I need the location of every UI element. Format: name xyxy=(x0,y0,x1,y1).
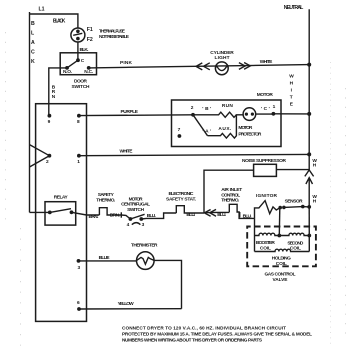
svg-text:MOTOR: MOTOR xyxy=(238,125,253,131)
relay terminal right xyxy=(70,210,74,214)
second coil xyxy=(279,233,309,235)
svg-text:C: C xyxy=(31,50,35,56)
svg-text:3: 3 xyxy=(78,265,81,271)
junction neutral-white xyxy=(307,152,311,156)
svg-text:PURPLE: PURPLE xyxy=(121,109,139,115)
svg-text:4: 4 xyxy=(127,222,130,228)
aux winding xyxy=(208,115,244,138)
air inlet control thermostat bump xyxy=(229,204,254,218)
svg-text:H: H xyxy=(313,199,317,205)
svg-text:BLU.: BLU. xyxy=(147,213,156,219)
door switch box xyxy=(60,53,96,75)
svg-text:PINK: PINK xyxy=(120,60,133,66)
svg-text:RUN: RUN xyxy=(222,103,234,109)
timer terminal 3 xyxy=(77,259,81,263)
svg-text:SENSOR: SENSOR xyxy=(285,199,304,205)
svg-text:7: 7 xyxy=(178,127,181,133)
door switch blade xyxy=(67,60,78,68)
relay terminal left xyxy=(48,211,52,215)
wire noise suppressor tap vertical xyxy=(204,170,254,213)
svg-text:W: W xyxy=(289,74,294,80)
wire YELLOW timer 6 to thermistor loop xyxy=(79,308,182,310)
cylinder light lamp xyxy=(215,62,228,75)
connector chevrons right of lamp xyxy=(239,63,250,70)
label AIR INLET CONTROL THERMO. xyxy=(221,187,242,203)
wire fuse to door switch, BLK. xyxy=(77,42,79,60)
holding coil bottom wire xyxy=(255,249,310,251)
motor box xyxy=(172,100,282,147)
wire neutral vertical line xyxy=(308,9,310,170)
door switch terminal N.C. xyxy=(87,66,91,70)
svg-text:CENTRIFUGAL: CENTRIFUGAL xyxy=(121,202,150,208)
wire L1 top horizontal to fuse xyxy=(30,14,78,28)
wire motor 1 to neutral xyxy=(273,113,309,115)
junction neutral-sensor xyxy=(307,205,311,209)
junction second coil right xyxy=(307,234,311,238)
svg-text:THERMISTER: THERMISTER xyxy=(131,242,158,248)
wire thermistor loop right xyxy=(154,260,181,308)
label ELECTRONIC SAFETY STAT. xyxy=(166,191,196,203)
connector tick xyxy=(120,212,122,217)
svg-text:DOOR: DOOR xyxy=(74,79,88,85)
svg-text:N.O.: N.O. xyxy=(63,69,72,75)
wire into centrifugal switch xyxy=(121,215,130,219)
svg-text:WHITE: WHITE xyxy=(120,149,134,155)
wire to air inlet thermo xyxy=(204,211,229,213)
svg-text:GAS CONTROL: GAS CONTROL xyxy=(265,271,296,277)
sensor xyxy=(278,205,309,210)
svg-text:BRN.: BRN. xyxy=(110,212,120,218)
motor terminal 1 xyxy=(272,112,276,116)
svg-text:F2: F2 xyxy=(87,37,93,43)
label BRN vertical xyxy=(52,84,56,100)
label W H pair lower xyxy=(312,194,317,205)
svg-text:PROTECTED BY MAXIMUM 15 A. TIM: PROTECTED BY MAXIMUM 15 A. TIME DELAY FU… xyxy=(122,332,312,337)
svg-text:PROTECTOR: PROTECTOR xyxy=(238,131,262,137)
label HOLDING COIL xyxy=(272,256,291,267)
svg-text:K: K xyxy=(31,59,35,65)
wire noise suppressor to neutral xyxy=(276,169,309,171)
svg-text:NOISE SUPPRESSOR: NOISE SUPPRESSOR xyxy=(242,158,287,164)
motor terminal 7 xyxy=(178,134,182,138)
label MOTOR CENTRIFUGAL SWITCH xyxy=(121,196,150,212)
svg-text:NUMBERS WHEN WRITING ABOUT THI: NUMBERS WHEN WRITING ABOUT THIS DRYER OR… xyxy=(122,337,262,342)
label DOOR SWITCH xyxy=(72,79,91,90)
wire PINK door switch to cylinder light to neutral xyxy=(89,65,310,68)
label SAFETY THERMO. xyxy=(96,192,115,203)
motor terminal 2 xyxy=(191,113,195,117)
connector chevrons left of lamp xyxy=(196,63,210,70)
svg-text:H: H xyxy=(313,163,317,169)
svg-text:VALVE: VALVE xyxy=(273,277,289,283)
svg-text:BOOSTER: BOOSTER xyxy=(256,240,276,246)
thermistor xyxy=(137,252,155,270)
wire black line to relay xyxy=(30,211,50,213)
junction booster-second xyxy=(277,234,281,238)
timer terminal 9 xyxy=(48,114,52,118)
svg-text:SWITCH: SWITCH xyxy=(72,84,91,90)
svg-text:YELLOW: YELLOW xyxy=(118,301,134,307)
svg-text:T: T xyxy=(290,95,293,101)
motor protector xyxy=(243,108,256,121)
svg-text:3: 3 xyxy=(142,222,145,228)
svg-text:NEUTRAL: NEUTRAL xyxy=(284,5,304,11)
svg-text:BLK.: BLK. xyxy=(80,47,89,53)
svg-text:BLACK: BLACK xyxy=(53,19,66,25)
svg-text:L1: L1 xyxy=(39,7,45,13)
svg-text:BLUE: BLUE xyxy=(99,255,111,261)
timer box xyxy=(36,104,87,322)
label BLACK vertical xyxy=(31,21,35,65)
connector tick second xyxy=(239,212,241,217)
svg-text:BLU.: BLU. xyxy=(243,214,252,220)
svg-text:SWITCH: SWITCH xyxy=(127,207,145,213)
svg-text:SAFETY STAT.: SAFETY STAT. xyxy=(166,197,196,203)
svg-text:SAFETY: SAFETY xyxy=(98,192,115,198)
motor centrifugal actuator blade xyxy=(193,115,208,136)
svg-text:BRN.: BRN. xyxy=(89,214,99,220)
electronic safety stat bump xyxy=(176,206,204,213)
wire BRN door switch to timer terminal 9 xyxy=(49,68,67,116)
svg-text:8: 8 xyxy=(77,119,80,125)
svg-text:1: 1 xyxy=(273,104,276,110)
svg-text:MOTOR: MOTOR xyxy=(129,196,144,202)
svg-text:CONNECT DRYER TO 120 V.A.C., 6: CONNECT DRYER TO 120 V.A.C., 60 HZ. INDI… xyxy=(122,326,286,331)
svg-text:AIR INLET: AIR INLET xyxy=(221,187,242,193)
svg-text:B: B xyxy=(31,21,35,27)
junction neutral-pink xyxy=(307,63,311,67)
door switch terminal N.O. xyxy=(65,66,69,70)
svg-text:MOTOR: MOTOR xyxy=(257,92,274,98)
svg-text:COIL: COIL xyxy=(276,261,287,267)
svg-text:COIL: COIL xyxy=(260,245,271,251)
relay box xyxy=(45,202,76,225)
connector arrow up to neutral xyxy=(306,178,313,207)
safety thermostat bump xyxy=(99,208,121,215)
label BOOSTER COIL xyxy=(256,240,276,251)
label THERMAL FUSE NOT RESETABLE xyxy=(99,28,130,40)
svg-text:IGNITOR: IGNITOR xyxy=(256,193,278,199)
svg-text:THERMO.: THERMO. xyxy=(96,197,115,203)
timer terminal 8 xyxy=(77,114,81,118)
label CYLINDER LIGHT xyxy=(210,50,234,61)
svg-text:F1: F1 xyxy=(87,27,93,33)
svg-text:N.C.: N.C. xyxy=(84,69,93,75)
svg-text:H: H xyxy=(290,81,294,87)
ignitor xyxy=(255,201,281,219)
svg-text:ELECTRONIC: ELECTRONIC xyxy=(169,191,195,197)
connector chevrons on burner line xyxy=(204,209,216,216)
svg-text:NOT RESETABLE: NOT RESETABLE xyxy=(99,34,130,40)
run winding xyxy=(193,112,236,117)
label GAS CONTROL VALVE xyxy=(265,271,296,283)
timer terminal 6 xyxy=(77,307,81,311)
wire PURPLE timer 8 to motor 2 xyxy=(79,114,193,117)
wire relay to burner line BRN. xyxy=(72,212,100,215)
junction neutral-motor xyxy=(307,112,311,116)
wire valve left rail xyxy=(254,218,256,251)
svg-text:6: 6 xyxy=(77,300,80,306)
svg-text:LIGHT: LIGHT xyxy=(215,55,230,61)
svg-text:AUX.: AUX. xyxy=(218,126,231,132)
timer terminal 2 xyxy=(48,154,52,158)
timer terminal 1 xyxy=(77,154,81,158)
svg-text:2: 2 xyxy=(46,159,49,165)
svg-text:COIL: COIL xyxy=(290,245,301,251)
connector flare on neutral end xyxy=(305,170,314,176)
svg-text:RELAY: RELAY xyxy=(54,194,69,200)
wire centrifugal switch to safety stat BLU. xyxy=(141,213,176,219)
svg-text:CYLINDER: CYLINDER xyxy=(210,50,234,56)
wire L1 left vertical black line xyxy=(29,12,31,212)
note text bottom xyxy=(122,326,312,343)
svg-text:HOLDING: HOLDING xyxy=(272,256,291,262)
label MOTOR PROTECTOR xyxy=(238,125,262,137)
timer selector contact V to terminal 2 xyxy=(30,145,50,167)
wire WHITE timer 1 to neutral xyxy=(79,154,309,155)
motor centrifugal switch xyxy=(129,214,145,221)
svg-text:2: 2 xyxy=(191,105,194,111)
thermal fuse F1 F2 xyxy=(71,28,85,42)
wire sensor to coils junction xyxy=(278,208,281,236)
svg-text:1: 1 xyxy=(77,159,80,165)
gas control valve dashed box xyxy=(247,227,316,267)
relay blade xyxy=(50,209,71,213)
noise suppressor box xyxy=(254,164,277,176)
svg-text:THERMO.: THERMO. xyxy=(221,198,239,204)
svg-text:A: A xyxy=(31,40,35,46)
door switch terminal C xyxy=(76,58,80,62)
svg-text:CONTROL: CONTROL xyxy=(221,192,240,198)
booster coil xyxy=(255,233,280,235)
label W H pair upper xyxy=(312,158,317,169)
svg-text:C: C xyxy=(81,58,85,64)
svg-text:BLU.: BLU. xyxy=(186,212,195,218)
label SECOND COIL xyxy=(287,240,304,251)
wire BLUE timer 3 to thermistor xyxy=(79,260,137,262)
svg-text:BLU.: BLU. xyxy=(217,212,226,218)
pins 4 and 3 with arrow xyxy=(127,222,145,228)
svg-text:N: N xyxy=(52,94,56,100)
label WHITE vertical xyxy=(289,74,294,108)
wire valve right rail xyxy=(308,207,310,252)
svg-text:9: 9 xyxy=(48,119,51,125)
svg-text:THERMAL FUSE: THERMAL FUSE xyxy=(99,28,126,34)
wire protector to motor terminal 1 xyxy=(256,113,274,115)
svg-text:WHITE: WHITE xyxy=(260,59,273,65)
